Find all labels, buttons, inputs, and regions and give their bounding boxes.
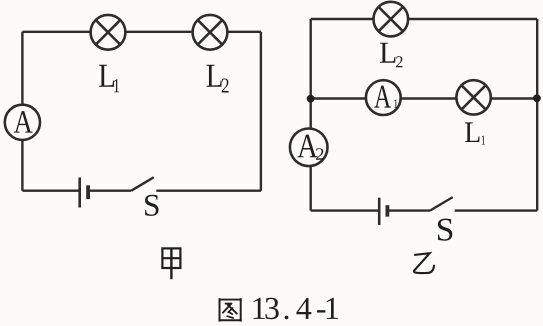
label jia (Chinese caption of left circuit) <box>162 248 180 279</box>
switch S (yi): open blade <box>430 197 453 211</box>
label S (jia) <box>145 195 158 216</box>
label S (yi) <box>438 219 452 241</box>
wire: jia right side <box>260 32 262 191</box>
switch S (jia): open blade <box>131 177 153 190</box>
label L2 (jia) <box>206 65 228 93</box>
node: left junction dot (yi) <box>307 95 315 103</box>
wire: jia bottom-middle segment <box>88 189 131 191</box>
wire: yi bottom-right segment <box>455 209 538 211</box>
wire: yi top side <box>311 18 538 20</box>
ammeter A1 (yi, middle branch) <box>366 80 401 115</box>
lamp L1 (yi, middle branch) <box>456 80 490 114</box>
ammeter A2 (yi, left branch) <box>290 129 328 167</box>
lamp L1 (jia) <box>91 15 126 50</box>
node: right junction dot (yi) <box>533 94 541 102</box>
label L2 (yi) <box>380 43 403 67</box>
caption: Chinese character tu (figure) <box>219 298 242 321</box>
caption: figure number 13.4-1 <box>254 298 338 320</box>
lamp L2 (yi, top branch) <box>374 2 409 37</box>
wire: yi left side <box>310 19 312 211</box>
lamp L2 (jia) <box>193 15 228 50</box>
wire: yi middle branch <box>311 97 538 99</box>
wire: jia left side <box>21 32 23 191</box>
battery cell (yi): long positive plate + short negative plate <box>379 198 387 225</box>
label L1 (yi) <box>465 122 485 144</box>
wire: jia bottom-left segment <box>22 189 79 191</box>
label L1 (jia) <box>99 65 119 93</box>
wire: yi bottom-left segment <box>311 209 380 211</box>
ammeter A (jia) <box>5 105 40 140</box>
label yi (Chinese caption of right circuit) <box>414 253 434 273</box>
wire: yi right side <box>536 19 538 211</box>
wire: jia top side <box>22 31 261 33</box>
battery cell (jia): long positive plate + short negative plate <box>80 178 88 208</box>
wire: yi bottom-middle segment <box>387 209 430 211</box>
wire: jia bottom-right segment <box>156 189 261 191</box>
